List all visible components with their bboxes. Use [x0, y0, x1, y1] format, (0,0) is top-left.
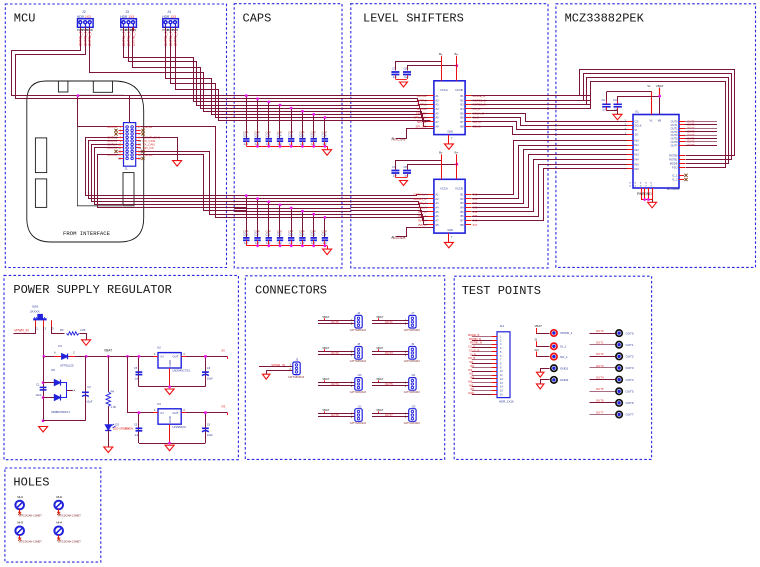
- test point SO_1: [535, 348, 569, 360]
- bus fan-in to U4: [351, 96, 435, 127]
- test point OUT6: [590, 399, 634, 406]
- svg-text:IN0: IN0: [635, 138, 640, 142]
- svg-text:CATTC8X0443: CATTC8X0443: [404, 329, 421, 332]
- wire bus to J1 top: [129, 96, 131, 123]
- op U5 part label: [391, 236, 406, 240]
- svg-text:IN4: IN4: [635, 157, 640, 161]
- svg-text:2KXXX: 2KXXX: [30, 310, 40, 314]
- ground left branch: [39, 427, 48, 433]
- ground R2: [82, 340, 91, 346]
- regulator U3 stubs: [153, 408, 186, 412]
- svg-text:GND: GND: [447, 228, 453, 232]
- svg-text:R3: R3: [222, 405, 226, 409]
- header J11 HDR_1X16: [497, 324, 514, 404]
- op U4 right net labels: [473, 94, 486, 128]
- svg-text:IN: IN: [161, 411, 164, 415]
- svg-text:VB: VB: [658, 119, 662, 123]
- U5 cluster bypass caps C7 C8: [391, 165, 411, 177]
- U4 cluster caps ground: [400, 82, 408, 87]
- svg-text:VBAT: VBAT: [376, 377, 383, 381]
- svg-text:VPWR_IN: VPWR_IN: [14, 328, 29, 332]
- connector J11: [404, 373, 421, 394]
- svg-text:MTG3X2AH-3.5MET: MTG3X2AH-3.5MET: [19, 540, 43, 543]
- MCU module outline: [27, 81, 144, 242]
- connector J13: [404, 404, 421, 425]
- svg-text:C23: C23: [288, 233, 293, 237]
- svg-text:C7: C7: [392, 67, 396, 71]
- op U4 left pins: [428, 94, 439, 128]
- svg-text:IN1: IN1: [470, 364, 475, 368]
- svg-text:B+: B+: [455, 52, 459, 56]
- MCZ bypass caps: [602, 92, 622, 114]
- svg-text:C15: C15: [288, 133, 293, 137]
- connector J5: [288, 358, 305, 379]
- svg-text:OUT2: OUT2: [331, 351, 339, 355]
- svg-text:C8: C8: [404, 67, 408, 71]
- wire R2 to ground: [80, 334, 87, 340]
- svg-text:J11: J11: [500, 324, 505, 328]
- svg-text:J4: J4: [167, 10, 171, 14]
- MCU slot 2: [35, 179, 46, 208]
- svg-text:IN0: IN0: [469, 360, 474, 364]
- connector J10 wires: [318, 377, 355, 388]
- wire J2 pin1 to bus line1: [12, 28, 247, 96]
- svg-text:MTG3X2AH-3.5MET: MTG3X2AH-3.5MET: [19, 515, 43, 518]
- svg-text:OUT6: OUT6: [596, 399, 604, 403]
- svg-text:IC_2: IC_2: [672, 178, 678, 182]
- svg-text:VCCB: VCCB: [455, 88, 463, 92]
- MCZ part label: [667, 187, 680, 191]
- cap bank 1 bus wires: [234, 96, 351, 118]
- svg-text:B+: B+: [439, 150, 443, 154]
- svg-text:OUT6: OUT6: [626, 401, 634, 405]
- svg-text:VBAT: VBAT: [376, 408, 383, 412]
- op U4 GND pin: [447, 130, 453, 144]
- capacitor U3 output: [202, 411, 213, 443]
- svg-text:OUT0: OUT0: [626, 331, 634, 335]
- cap bank 1 ground: [323, 150, 332, 156]
- svg-text:OUT4: OUT4: [671, 133, 678, 137]
- svg-text:B2: B2: [460, 197, 464, 201]
- svg-text:CNTL9: CNTL9: [107, 146, 117, 150]
- svg-text:CATTC8X0443: CATTC8X0443: [350, 360, 367, 363]
- section box TEST POINTS: [454, 276, 651, 459]
- svg-text:SCLK: SCLK: [635, 124, 642, 128]
- section box POWER SUPPLY REGULATOR: [4, 275, 238, 459]
- svg-text:B7: B7: [460, 120, 464, 124]
- test point OUT0: [590, 329, 634, 336]
- MCU inner outline: [77, 95, 124, 206]
- U4 cluster VCC wires: [396, 62, 459, 71]
- svg-text:B1: B1: [460, 192, 464, 196]
- svg-text:C25: C25: [310, 233, 315, 237]
- MCU outline tab 1: [58, 81, 68, 92]
- svg-text:A7: A7: [435, 219, 439, 223]
- svg-text:.1uF: .1uF: [243, 142, 249, 146]
- svg-text:CATTC8X0443: CATTC8X0443: [404, 391, 421, 394]
- test point OUT2: [590, 352, 634, 359]
- svg-text:B3: B3: [460, 103, 464, 107]
- svg-text:U1: U1: [635, 110, 639, 114]
- op U5 ground: [444, 242, 453, 248]
- svg-text:POWER SUPPLY REGULATOR: POWER SUPPLY REGULATOR: [13, 283, 171, 297]
- svg-text:B2: B2: [460, 98, 464, 102]
- svg-text:B8: B8: [460, 223, 464, 227]
- svg-text:GND: GND: [168, 359, 172, 367]
- test point GND1: [536, 365, 568, 377]
- U2 ground rail: [139, 368, 206, 388]
- ground MCU: [173, 161, 182, 167]
- mounting hole MH4: [54, 521, 81, 544]
- svg-text:CATTC8X0443: CATTC8X0443: [288, 376, 305, 379]
- svg-text:STPS2L25: STPS2L25: [60, 363, 74, 367]
- svg-text:LP2950CZ: LP2950CZ: [173, 425, 187, 429]
- svg-text:RSTB0: RSTB0: [669, 154, 678, 158]
- svg-text:A8: A8: [435, 124, 439, 128]
- svg-text:GND: GND: [447, 130, 453, 134]
- wires headers to upper bus: [90, 28, 247, 118]
- svg-text:OUT1: OUT1: [385, 320, 393, 324]
- svg-text:C5: C5: [134, 422, 138, 426]
- svg-text:OUT7: OUT7: [385, 413, 393, 417]
- svg-text:OUT2: OUT2: [596, 352, 604, 356]
- svg-text:.1uF: .1uF: [134, 377, 140, 381]
- connector J10: [350, 373, 367, 394]
- wires central header left to lower bus: [86, 138, 247, 208]
- op U4 body: [434, 52, 465, 135]
- svg-text:GND: GND: [168, 415, 172, 423]
- capacitor C1: [36, 382, 47, 397]
- svg-text:SO_B: SO_B: [468, 356, 475, 360]
- wire VBAT to U3: [128, 357, 159, 415]
- svg-text:VBAT: VBAT: [656, 84, 664, 88]
- svg-text:OUT: OUT: [172, 355, 179, 359]
- svg-text:OUT1: OUT1: [626, 343, 634, 347]
- svg-text:OUT0: OUT0: [596, 329, 604, 333]
- svg-text:C16: C16: [299, 133, 304, 137]
- U3 ground: [165, 445, 174, 451]
- U4 cluster bypass caps C7 C8: [391, 67, 411, 80]
- svg-text:MC33882: MC33882: [667, 187, 680, 191]
- test point OUT4: [590, 375, 634, 382]
- svg-text:IN5: IN5: [635, 162, 640, 166]
- central header J1 2x10: [118, 123, 141, 167]
- connector J9 wires: [372, 346, 409, 357]
- svg-text:C7: C7: [392, 165, 396, 169]
- connector J5 wires: [259, 363, 293, 374]
- svg-text:GND1: GND1: [560, 366, 569, 370]
- svg-text:A: A: [74, 389, 76, 393]
- svg-text:.1uF: .1uF: [404, 76, 409, 79]
- svg-text:C24: C24: [299, 233, 304, 237]
- svg-text:SI_1: SI_1: [560, 345, 567, 349]
- svg-text:C6: C6: [207, 422, 211, 426]
- svg-text:74LVC3245: 74LVC3245: [391, 137, 406, 141]
- MCZ33882 U1 body: [633, 110, 679, 189]
- svg-text:J11: J11: [411, 373, 416, 377]
- svg-text:PWRGND: PWRGND: [637, 192, 652, 196]
- svg-text:C: C: [73, 350, 75, 354]
- svg-text:OUT2: OUT2: [671, 126, 678, 130]
- svg-text:5V: 5V: [222, 348, 226, 352]
- label VPWR_IN: [14, 328, 29, 332]
- op U5 OE stub: [392, 228, 434, 239]
- op U4 OE stub: [392, 129, 434, 141]
- svg-text:A4: A4: [435, 107, 439, 111]
- svg-text:J10: J10: [357, 373, 362, 377]
- op U4 ground: [444, 144, 453, 150]
- U5 cluster caps ground: [400, 181, 408, 186]
- test point SI_1: [535, 338, 567, 350]
- svg-text:OUT6: OUT6: [331, 413, 339, 417]
- svg-text:.1uF: .1uF: [392, 76, 397, 79]
- cap bank 1 capacitors C11-C18: [243, 131, 328, 147]
- svg-text:IN2: IN2: [635, 148, 640, 152]
- svg-text:VBAT: VBAT: [322, 315, 329, 319]
- wire branch left: [42, 356, 45, 422]
- MCZ loop wires: [556, 70, 735, 168]
- wire SW1 pin3: [52, 327, 65, 334]
- label VBAT: [104, 349, 112, 353]
- svg-text:C2: C2: [87, 385, 91, 389]
- central header right labels: [141, 125, 160, 160]
- svg-text:IN1: IN1: [635, 143, 640, 147]
- svg-text:IN5_A: IN5_A: [418, 223, 426, 227]
- regulator U3 body: [157, 402, 186, 429]
- capacitor U2 input: [134, 355, 142, 387]
- svg-text:C8: C8: [404, 165, 408, 169]
- svg-text:MH1: MH1: [17, 495, 23, 499]
- svg-text:OUT1: OUT1: [596, 341, 604, 345]
- svg-text:OUT3: OUT3: [671, 130, 678, 134]
- U3 ground rail: [139, 424, 206, 444]
- svg-text:IN3: IN3: [469, 372, 474, 376]
- svg-text:SI: SI: [535, 338, 538, 342]
- svg-text:J1: J1: [125, 166, 129, 170]
- test point VPWR_1: [535, 324, 573, 336]
- resistor R2: [60, 328, 86, 335]
- svg-text:A8: A8: [435, 223, 439, 227]
- svg-text:U2: U2: [157, 346, 161, 350]
- connector J6: [350, 311, 367, 332]
- connector J9: [404, 342, 421, 363]
- rail VBAT: [43, 355, 159, 358]
- cap bank 2 drop wires: [245, 194, 326, 238]
- MCZ control pins: [669, 154, 685, 170]
- svg-text:OUT6: OUT6: [671, 140, 678, 144]
- svg-text:J13: J13: [411, 404, 416, 408]
- svg-text:OUT3: OUT3: [626, 366, 634, 370]
- section box HOLES: [5, 468, 101, 562]
- svg-text:VBAT: VBAT: [376, 346, 383, 350]
- svg-text:C1: C1: [36, 382, 40, 386]
- central header left labels: [107, 125, 117, 157]
- capacitor C2: [82, 356, 93, 420]
- header J2 net labels: [79, 31, 92, 46]
- svg-text:10uF: 10uF: [86, 399, 92, 403]
- svg-text:B+: B+: [439, 52, 443, 56]
- svg-text:CAPS: CAPS: [243, 11, 272, 25]
- svg-text:VPWR_1: VPWR_1: [560, 331, 573, 335]
- svg-text:MCZ33882PEK: MCZ33882PEK: [565, 11, 645, 25]
- svg-text:B6: B6: [460, 214, 464, 218]
- svg-text:IN2: IN2: [468, 368, 473, 372]
- MCZ ground: [648, 202, 657, 208]
- svg-text:OUT7: OUT7: [626, 413, 634, 417]
- mounting hole MH3: [15, 521, 42, 544]
- svg-text:A: A: [54, 350, 56, 354]
- svg-text:VBAT: VBAT: [322, 408, 329, 412]
- svg-text:IN6: IN6: [635, 167, 640, 171]
- bottom rail left: [43, 420, 85, 422]
- svg-text:RSTB1: RSTB1: [669, 157, 678, 161]
- svg-text:MODE: MODE: [670, 161, 678, 165]
- svg-text:OUT2: OUT2: [626, 355, 634, 359]
- switch SW1 pins: [36, 320, 55, 330]
- svg-text:CS: CS: [635, 119, 639, 123]
- connector J6 wires: [318, 315, 355, 326]
- svg-text:A6: A6: [435, 116, 439, 120]
- MCZ nc pins: [672, 173, 688, 181]
- svg-text:D1: D1: [58, 344, 62, 348]
- op U5 left net labels: [413, 192, 426, 226]
- svg-text:CNTL3: CNTL3: [107, 125, 117, 129]
- MCZ caps ground: [613, 114, 622, 120]
- connector J5 gnd: [262, 374, 270, 379]
- connector J12: [350, 404, 367, 425]
- svg-text:IN3: IN3: [635, 153, 640, 157]
- svg-text:SPI_SO: SPI_SO: [416, 124, 428, 128]
- svg-text:C6: C6: [207, 366, 211, 370]
- connector J7: [404, 311, 421, 332]
- MCU slot 3: [123, 173, 134, 206]
- svg-text:.1uF: .1uF: [134, 433, 140, 437]
- svg-text:CATTC8X0443: CATTC8X0443: [404, 360, 421, 363]
- svg-text:MH4: MH4: [56, 521, 62, 525]
- svg-text:A2: A2: [435, 98, 439, 102]
- svg-text:C14: C14: [277, 133, 282, 137]
- svg-text:A5: A5: [435, 210, 439, 214]
- svg-text:FSO: FSO: [672, 165, 677, 169]
- label MXEN: [125, 427, 133, 431]
- svg-text:SO: SO: [635, 133, 639, 137]
- svg-text:1.0K: 1.0K: [111, 405, 117, 409]
- svg-text:VCCA: VCCA: [440, 88, 448, 92]
- svg-text:VBAT: VBAT: [322, 346, 329, 350]
- header J3 HDR 1X3: [120, 10, 136, 32]
- op U5 right pins: [460, 192, 471, 226]
- svg-text:CATTC8X0443: CATTC8X0443: [350, 391, 367, 394]
- svg-text:OUT0: OUT0: [671, 120, 678, 124]
- svg-text:B4: B4: [460, 107, 464, 111]
- U5 cluster VCC wires: [396, 161, 459, 170]
- MCU outline tab 2: [93, 81, 112, 92]
- svg-text:B3: B3: [460, 201, 464, 205]
- svg-text:CNTRL_2: CNTRL_2: [88, 31, 92, 46]
- svg-text:MMBD7000LT1: MMBD7000LT1: [51, 410, 70, 414]
- svg-text:CONNECTORS: CONNECTORS: [255, 283, 327, 297]
- wire J2 pin2 to bus line2: [16, 28, 247, 99]
- svg-text:.1uF: .1uF: [243, 241, 249, 245]
- svg-text:.1uF: .1uF: [602, 108, 607, 111]
- test point GND2: [536, 377, 568, 389]
- svg-text:SPI_CS: SPI_CS: [143, 146, 154, 150]
- wire VBAT: [618, 88, 662, 115]
- svg-text:OUT7: OUT7: [596, 410, 604, 414]
- regulator U2 stubs: [153, 352, 186, 357]
- connector J8 wires: [318, 346, 355, 357]
- svg-text:OUT1: OUT1: [671, 123, 678, 127]
- op U4 part label: [391, 137, 406, 141]
- resistor R4: [106, 356, 116, 424]
- svg-text:MTG3X2AH-3.5MET: MTG3X2AH-3.5MET: [58, 540, 82, 543]
- svg-text:OUT5: OUT5: [385, 382, 393, 386]
- svg-text:IN4: IN4: [470, 376, 475, 380]
- svg-text:IN7: IN7: [470, 387, 475, 391]
- svg-text:CATTC8X0443: CATTC8X0443: [350, 422, 367, 425]
- header J2 HDR 1X3: [77, 10, 93, 32]
- svg-text:B6: B6: [460, 116, 464, 120]
- MCZ IN pins: [627, 138, 639, 171]
- U3 out wire: [186, 405, 227, 416]
- section box MCZ33882PEK: [556, 4, 756, 268]
- svg-text:R2: R2: [60, 328, 64, 332]
- svg-text:MH2: MH2: [56, 495, 62, 499]
- section box CONNECTORS: [245, 276, 444, 460]
- capacitor U2 output: [202, 355, 213, 387]
- svg-text:J3: J3: [125, 10, 129, 14]
- svg-text:A1: A1: [435, 192, 439, 196]
- connector J13 wires: [372, 408, 409, 419]
- op U5 left pins: [428, 192, 439, 226]
- svg-text:B+: B+: [455, 150, 459, 154]
- connector J8: [350, 342, 367, 363]
- svg-text:HOLES: HOLES: [13, 476, 49, 490]
- svg-text:B4: B4: [460, 205, 464, 209]
- svg-text:CU: CU: [613, 98, 617, 102]
- wires U4 to MCZ loop: [471, 96, 590, 109]
- MCZ bottom gnd pins: [629, 182, 652, 203]
- svg-text:C5: C5: [134, 366, 138, 370]
- svg-text:OUT3: OUT3: [385, 351, 393, 355]
- svg-text:10uF: 10uF: [207, 433, 213, 437]
- section box CAPS: [234, 4, 342, 268]
- test point OUT1: [590, 341, 634, 348]
- section box LEVEL SHIFTERS: [351, 4, 548, 268]
- svg-text:A6: A6: [435, 214, 439, 218]
- svg-text:A2: A2: [435, 197, 439, 201]
- MCZ OUT pins and wires: [671, 119, 717, 147]
- svg-text:D0: D0: [51, 368, 55, 372]
- svg-text:RSTB0_B: RSTB0_B: [469, 337, 481, 341]
- svg-text:GND: GND: [468, 391, 474, 395]
- op U5 body: [434, 150, 465, 233]
- labels VL VBAT: [647, 84, 663, 122]
- svg-text:C18: C18: [322, 133, 327, 137]
- svg-text:IN5: IN5: [468, 379, 473, 383]
- svg-text:OUT4: OUT4: [596, 375, 604, 379]
- dual diode D0: [43, 368, 75, 414]
- header J3 net labels: [122, 31, 135, 46]
- svg-text:C26: C26: [322, 233, 327, 237]
- ground led: [104, 447, 113, 453]
- svg-text:IN6: IN6: [469, 383, 474, 387]
- svg-text:OUT4: OUT4: [626, 378, 634, 382]
- svg-text:VCCB: VCCB: [455, 186, 463, 190]
- svg-text:A3: A3: [435, 103, 439, 107]
- central header ref: [125, 166, 129, 170]
- svg-text:SI_B: SI_B: [470, 352, 476, 356]
